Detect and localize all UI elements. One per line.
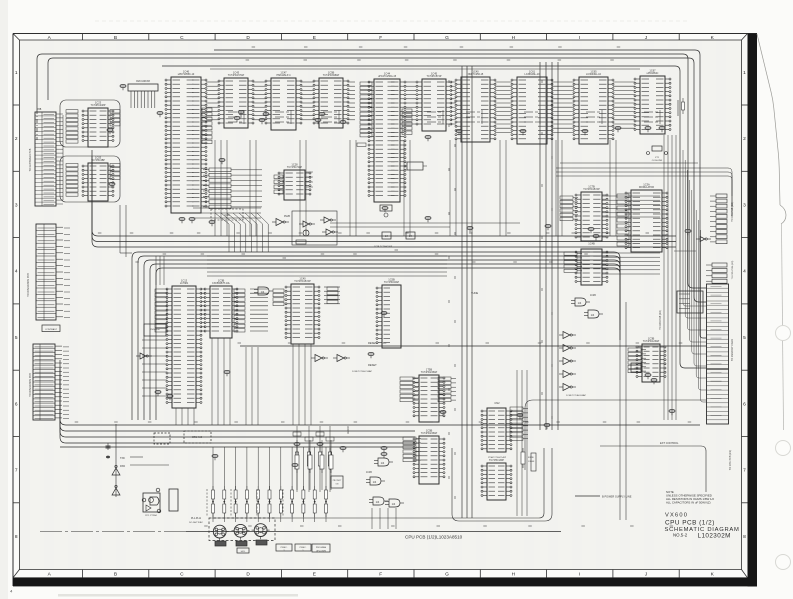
svg-text:1T4B: 1T4B — [634, 368, 639, 370]
svg-text:D: D — [246, 572, 250, 578]
svg-text:D: D — [246, 35, 250, 41]
svg-text:TO KEYBOARD PCB: TO KEYBOARD PCB — [29, 148, 32, 171]
svg-text:LC3664NL-10: LC3664NL-10 — [586, 73, 602, 76]
svg-text:ALL CAPACITORS IN uF 50WV(Z): ALL CAPACITORS IN uF 50WV(Z) — [666, 500, 711, 504]
svg-text:UP-DOWN: UP-DOWN — [316, 551, 326, 553]
svg-text:TC74HC157AP: TC74HC157AP — [228, 74, 245, 77]
svg-text:PL1-PL11: PL1-PL11 — [191, 518, 202, 520]
svg-text:TO CPU PCB (2/2): TO CPU PCB (2/2) — [732, 202, 734, 222]
svg-text:NO.5-2: NO.5-2 — [673, 533, 688, 538]
svg-text:TC74HC245AP: TC74HC245AP — [421, 371, 438, 374]
svg-text:TC74HC157AP: TC74HC157AP — [583, 188, 600, 191]
svg-text:5: 5 — [743, 335, 746, 341]
svg-text:TC74HC368AP: TC74HC368AP — [323, 74, 340, 77]
svg-text:MR1 4.19: MR1 4.19 — [192, 437, 203, 439]
svg-text:1C6B TC74HC14AP: 1C6B TC74HC14AP — [352, 370, 372, 373]
svg-text:4: 4 — [743, 269, 746, 275]
svg-text:B: B — [114, 572, 117, 578]
svg-text:TC74HC448P: TC74HC448P — [91, 104, 106, 107]
svg-text:TO OPERATION PCB: TO OPERATION PCB — [29, 373, 32, 397]
svg-text:TO CPU PCB (2/2): TO CPU PCB (2/2) — [660, 310, 662, 330]
svg-text:C: C — [180, 35, 184, 41]
svg-text:1/4: 1/4 — [376, 500, 380, 504]
svg-text:G: G — [445, 35, 449, 41]
svg-text:TC74HC04AP: TC74HC04AP — [384, 281, 400, 284]
svg-text:1/4: 1/4 — [591, 313, 595, 317]
svg-text:TC74HC139P: TC74HC139P — [489, 459, 504, 462]
svg-text:LC7981: LC7981 — [180, 282, 189, 285]
svg-text:CPU PCB (1/2): CPU PCB (1/2) — [665, 519, 715, 526]
svg-text:E: E — [313, 572, 316, 578]
svg-text:6: 6 — [15, 401, 18, 407]
svg-text:TO CPU PCB (2/2): TO CPU PCB (2/2) — [732, 261, 734, 280]
svg-text:TO OPERATION PCB: TO OPERATION PCB — [27, 273, 30, 297]
svg-text:H: H — [512, 572, 516, 578]
svg-text:PROGRAM: PROGRAM — [316, 546, 327, 549]
svg-text:6: 6 — [743, 401, 746, 407]
svg-text:uPD71055C-10: uPD71055C-10 — [178, 73, 195, 76]
svg-text:RV3B 100: RV3B 100 — [150, 329, 160, 331]
svg-text:TC74HC157AP: TC74HC157AP — [294, 280, 311, 283]
svg-text:1/4: 1/4 — [392, 502, 396, 506]
svg-text:H: H — [512, 35, 516, 41]
svg-text:NM27C256-15: NM27C256-15 — [468, 73, 484, 76]
svg-text:I: I — [579, 35, 580, 41]
svg-text:uPD4364C: uPD4364C — [647, 72, 659, 75]
svg-text:1/4: 1/4 — [578, 301, 582, 305]
svg-text:1C2B: 1C2B — [590, 295, 596, 297]
svg-text:uPC27C256A-15: uPC27C256A-15 — [378, 75, 397, 78]
svg-text:C: C — [180, 572, 184, 578]
svg-text:1C2B TC74HC00P: 1C2B TC74HC00P — [374, 246, 393, 248]
svg-text:CN2: CN2 — [494, 401, 500, 405]
svg-text:PREC.: PREC. — [281, 547, 288, 549]
svg-text:PC1 PT2B4: PC1 PT2B4 — [145, 515, 157, 517]
svg-text:8: 8 — [743, 534, 746, 540]
svg-text:RESET: RESET — [368, 363, 377, 367]
svg-text:PROTECT: PROTECT — [333, 480, 342, 482]
svg-text:HOL: HOL — [241, 551, 246, 553]
svg-text:EXT CONTROL: EXT CONTROL — [660, 441, 679, 445]
svg-text:1: 1 — [15, 70, 18, 76]
svg-text:F: F — [379, 35, 382, 41]
svg-text:1C4B: 1C4B — [366, 472, 372, 474]
svg-text:7: 7 — [15, 468, 18, 474]
svg-text:TO CPU PCB (2/2): TO CPU PCB (2/2) — [729, 450, 732, 470]
svg-text:G: G — [445, 572, 449, 578]
svg-text:TXD: TXD — [120, 457, 125, 460]
svg-text:8: 8 — [15, 534, 18, 540]
svg-text:CPU PCB (1/2)L1023A8510: CPU PCB (1/2)L1023A8510 — [405, 535, 463, 540]
svg-text:2: 2 — [743, 136, 746, 142]
svg-text:3: 3 — [743, 202, 746, 208]
svg-text:TC74HC4BP: TC74HC4BP — [91, 159, 105, 162]
svg-text:1/4: 1/4 — [261, 290, 265, 294]
svg-text:1/100K: 1/100K — [528, 461, 535, 463]
svg-text:B POWER SUPPLY LINE: B POWER SUPPLY LINE — [602, 495, 632, 499]
svg-text:E: E — [313, 35, 316, 41]
svg-text:TUNE: TUNE — [471, 291, 478, 295]
svg-text:PREC.: PREC. — [300, 547, 307, 549]
svg-text:HM6116LP-4: HM6116LP-4 — [277, 74, 292, 77]
svg-text:LC3664NL-10: LC3664NL-10 — [525, 73, 541, 76]
svg-text:TO MEMORY CARD: TO MEMORY CARD — [731, 339, 734, 361]
svg-text:R29 100KX8: R29 100KX8 — [136, 80, 150, 83]
svg-text:1/4: 1/4 — [381, 461, 385, 465]
svg-text:RV2B: RV2B — [284, 216, 290, 218]
svg-text:RESET: RESET — [368, 341, 377, 345]
svg-text:L102302M: L102302M — [698, 532, 731, 539]
svg-text:4: 4 — [15, 269, 18, 275]
svg-text:RXD: RXD — [120, 465, 125, 468]
svg-text:TC74HC74AP: TC74HC74AP — [287, 166, 303, 169]
svg-text:5: 5 — [15, 335, 18, 341]
svg-text:B: B — [114, 35, 117, 41]
svg-text:DC-DHT70BC: DC-DHT70BC — [189, 522, 203, 524]
svg-text:AUDIO: AUDIO — [347, 426, 350, 434]
svg-text:CL200-2MF: CL200-2MF — [652, 160, 663, 162]
svg-text:1/4: 1/4 — [373, 480, 377, 484]
svg-text:VX600: VX600 — [665, 512, 688, 518]
svg-text:P2B: P2B — [37, 109, 42, 111]
svg-text:TC74HC123AP: TC74HC123AP — [643, 340, 660, 343]
svg-text:F: F — [379, 572, 382, 578]
svg-text:C4M: C4M — [224, 214, 229, 217]
svg-text:CXK58257P-10L: CXK58257P-10L — [212, 282, 231, 285]
svg-text:2: 2 — [15, 136, 18, 142]
svg-text:TC74HC245AP: TC74HC245AP — [421, 432, 438, 435]
svg-text:1: 1 — [743, 70, 746, 76]
svg-text:CONTRAST: CONTRAST — [45, 328, 58, 331]
svg-text:MODULATOR: MODULATOR — [639, 186, 654, 189]
svg-text:7: 7 — [743, 468, 746, 474]
svg-text:3: 3 — [15, 202, 18, 208]
svg-text:1C4B: 1C4B — [588, 242, 595, 246]
svg-text:TC74HC574P: TC74HC574P — [427, 75, 442, 78]
svg-text:1C4B TC74HC04AP: 1C4B TC74HC04AP — [566, 394, 586, 397]
svg-text:R12B: R12B — [528, 457, 534, 459]
svg-text:I: I — [579, 572, 580, 578]
